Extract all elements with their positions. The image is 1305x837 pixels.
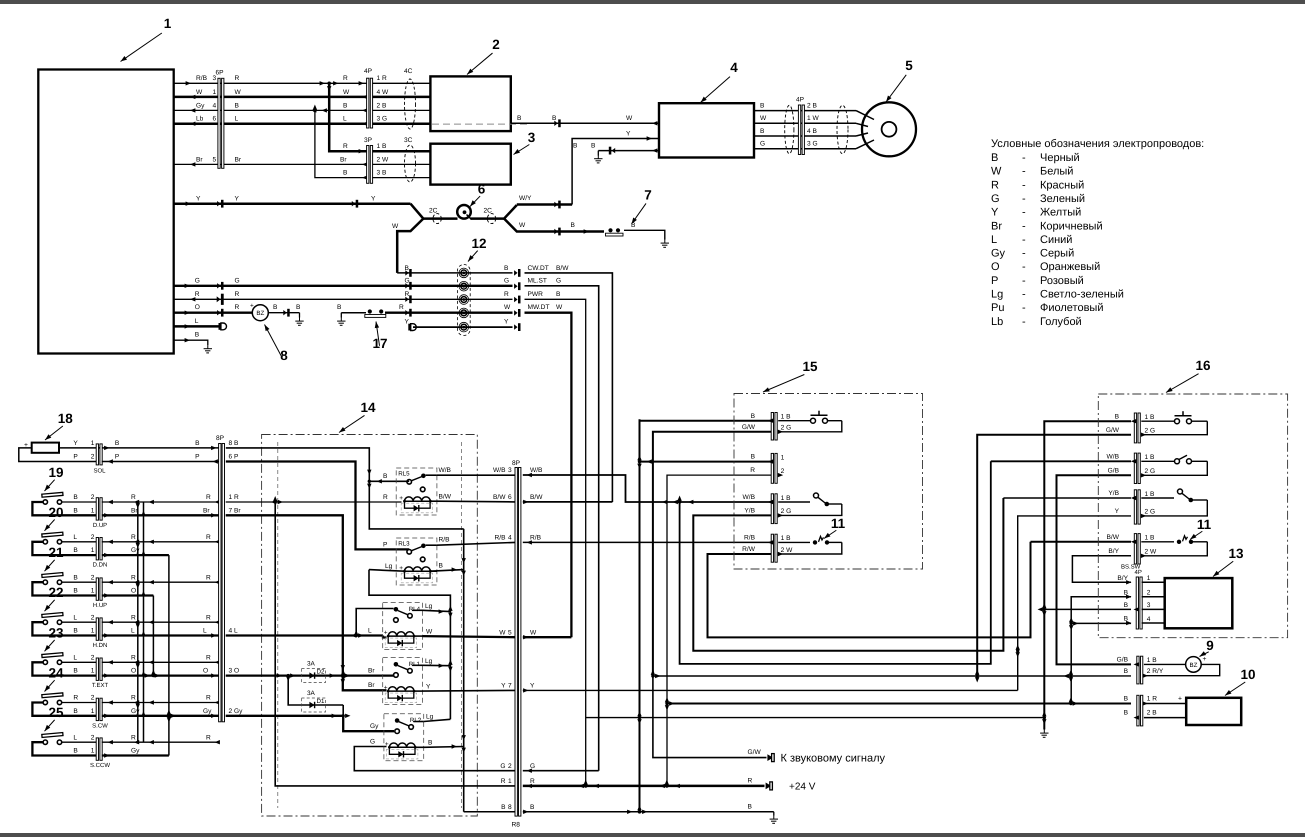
- svg-text:B: B: [195, 440, 200, 447]
- svg-text:RL5: RL5: [398, 471, 410, 478]
- wire G central corner: [523, 770, 599, 772]
- svg-text:1 R: 1 R: [1147, 696, 1157, 703]
- wire Y to component 4: [572, 130, 659, 204]
- svg-text:G: G: [991, 193, 1000, 205]
- wire R/B output of RL3: [437, 537, 515, 546]
- svg-text:D.UP: D.UP: [93, 522, 107, 529]
- svg-text:B: B: [504, 265, 509, 272]
- svg-text:Голубой: Голубой: [1040, 316, 1082, 328]
- svg-text:1: 1: [508, 778, 512, 785]
- svg-text:RL3: RL3: [398, 541, 410, 548]
- svg-text:6 P: 6 P: [229, 454, 239, 461]
- wire B output of RL2: [424, 739, 464, 747]
- wire Gy row to relay RL2: [226, 714, 394, 732]
- svg-text:3C: 3C: [404, 137, 413, 144]
- svg-text:6P: 6P: [216, 70, 225, 77]
- connector 8P left: [216, 435, 243, 722]
- svg-text:S.CCW: S.CCW: [90, 762, 110, 769]
- label 5: [884, 58, 913, 103]
- component 10 box: [1186, 698, 1241, 725]
- svg-text:Y: Y: [73, 440, 78, 447]
- svg-text:R: R: [195, 291, 200, 298]
- svg-text:2: 2: [91, 614, 95, 621]
- svg-text:5: 5: [508, 629, 512, 636]
- connector SOL: [94, 444, 219, 474]
- connector component 10: [1124, 695, 1158, 726]
- wire Lg input of RL3: [369, 563, 405, 571]
- svg-text:B: B: [1115, 413, 1120, 420]
- wire O row to buzzer 8: [174, 304, 253, 316]
- svg-text:BZ: BZ: [256, 310, 264, 317]
- solenoid 18: [19, 442, 219, 462]
- diode D2: [302, 661, 326, 683]
- svg-text:MW.DT: MW.DT: [528, 304, 550, 311]
- svg-text:B: B: [748, 803, 753, 810]
- svg-text:G: G: [556, 278, 561, 285]
- svg-text:Y: Y: [530, 683, 535, 690]
- wire Y/B row into box 16: [1003, 497, 1131, 499]
- svg-text:11: 11: [1197, 517, 1212, 532]
- svg-text:Y/B: Y/B: [744, 508, 755, 515]
- wire buzzer 8 to ground: [268, 304, 303, 325]
- svg-text:R: R: [383, 494, 388, 501]
- wire B/W output of RL5: [437, 494, 515, 502]
- wire B PWR from connector 12: [525, 291, 586, 786]
- wire buzzer 9 loop: [1071, 664, 1220, 676]
- svg-text:ML.ST: ML.ST: [528, 278, 547, 285]
- buzzer 9: [1186, 656, 1207, 672]
- wire R/B row to 4P pin1: [174, 75, 367, 91]
- svg-text:Gy: Gy: [196, 102, 205, 109]
- svg-text:G/W: G/W: [748, 749, 762, 756]
- svg-text:R: R: [504, 291, 509, 298]
- svg-text:2 W: 2 W: [377, 156, 389, 163]
- connector in box 16 rows Y/B/Y: [1108, 490, 1155, 524]
- rotary connector 6: [457, 205, 471, 220]
- wire Gy/B row to 4P pin2: [174, 102, 368, 112]
- svg-text:B/W: B/W: [530, 494, 543, 501]
- svg-text:CW.DT: CW.DT: [528, 265, 549, 272]
- svg-text:R: R: [131, 614, 136, 621]
- svg-text:Желтый: Желтый: [1040, 207, 1081, 219]
- svg-text:PWR: PWR: [528, 291, 544, 298]
- svg-text:T.EXT: T.EXT: [92, 682, 109, 689]
- svg-text:R: R: [501, 778, 506, 785]
- connector 12 circles: [457, 265, 470, 336]
- label 13: [1212, 546, 1244, 578]
- svg-text:D1: D1: [317, 698, 325, 705]
- svg-text:22: 22: [48, 585, 63, 600]
- label 1: [119, 16, 172, 63]
- svg-text:H.DN: H.DN: [93, 642, 108, 649]
- switch in box 16 at 421: [1141, 411, 1207, 435]
- grommet 4C: [404, 68, 416, 129]
- svg-text:1 B: 1 B: [781, 414, 791, 421]
- svg-text:К звуковому сигналу: К звуковому сигналу: [781, 752, 886, 764]
- svg-text:B: B: [1124, 589, 1129, 596]
- wire O switch 23 row2: [102, 668, 219, 678]
- svg-text:4 B: 4 B: [807, 128, 817, 135]
- svg-text:Pu: Pu: [991, 302, 1004, 314]
- svg-text:R/W: R/W: [742, 546, 756, 553]
- svg-text:O: O: [131, 668, 136, 675]
- svg-text:Y: Y: [426, 683, 431, 690]
- svg-text:O: O: [203, 668, 208, 675]
- svg-text:B/Y: B/Y: [1108, 548, 1119, 555]
- svg-text:3 O: 3 O: [229, 668, 240, 675]
- wires component 4 to motor 5: [754, 103, 874, 149]
- svg-text:B: B: [337, 304, 342, 311]
- page bottom border: [0, 833, 1305, 837]
- svg-text:B: B: [273, 304, 278, 311]
- svg-text:W: W: [504, 304, 511, 311]
- svg-text:Br: Br: [368, 682, 375, 689]
- svg-text:-: -: [1022, 166, 1026, 178]
- wire O row with diode D2 to relay RL1: [226, 668, 394, 682]
- svg-text:4P: 4P: [1135, 569, 1142, 576]
- svg-text:G: G: [760, 141, 765, 148]
- relay box 14 inner dashed right: [460, 442, 462, 808]
- svg-text:1 B: 1 B: [1147, 657, 1157, 664]
- svg-text:Белый: Белый: [1040, 166, 1073, 178]
- svg-text:Y: Y: [405, 319, 410, 326]
- svg-text:B: B: [439, 563, 444, 570]
- wire G/W vertical to box 16: [977, 435, 1131, 676]
- svg-text:B: B: [383, 473, 388, 480]
- svg-text:Y: Y: [501, 683, 506, 690]
- svg-text:W: W: [556, 304, 563, 311]
- wires 3P connector to component 3: [372, 151, 430, 177]
- svg-text:1: 1: [91, 547, 95, 554]
- svg-text:R: R: [750, 467, 755, 474]
- wire switch 17 to connector 12 row W: [385, 304, 513, 316]
- wire R central to +24V: [523, 777, 765, 788]
- svg-text:1 B: 1 B: [1145, 535, 1155, 542]
- svg-text:B: B: [195, 332, 200, 339]
- relay RL2: [384, 714, 424, 761]
- svg-text:4P: 4P: [364, 68, 373, 75]
- wire R switch 23 row1: [102, 654, 220, 664]
- wire Br to relay RL1 coil: [226, 515, 387, 690]
- svg-text:2 G: 2 G: [781, 425, 792, 432]
- wire W up into bundle: [392, 219, 423, 273]
- wire Y row of connector 12: [405, 319, 513, 331]
- svg-text:W: W: [343, 89, 350, 96]
- dashed wire through component 2: [432, 123, 530, 125]
- wire W row to 4P pin4: [174, 89, 368, 99]
- svg-text:2 G: 2 G: [1145, 468, 1156, 475]
- wire B row3 box16: [1044, 608, 1131, 610]
- wire Lg bus: [369, 570, 453, 720]
- svg-text:B: B: [751, 454, 756, 461]
- svg-text:3A: 3A: [307, 690, 316, 697]
- svg-text:2: 2: [91, 453, 95, 460]
- svg-text:3 B: 3 B: [377, 170, 387, 177]
- svg-text:W/B: W/B: [439, 467, 452, 474]
- svg-text:-: -: [1022, 234, 1026, 246]
- wire Y vertical to box 16: [1016, 516, 1132, 691]
- svg-text:L: L: [73, 534, 77, 541]
- svg-text:Br: Br: [368, 668, 375, 675]
- svg-text:B: B: [530, 804, 535, 811]
- svg-text:R: R: [399, 304, 404, 311]
- connector 3P: [364, 137, 389, 184]
- svg-text:Оранжевый: Оранжевый: [1040, 261, 1100, 273]
- wire O switch 21 row2: [102, 588, 154, 596]
- svg-text:L: L: [235, 116, 239, 123]
- svg-text:5: 5: [213, 156, 217, 163]
- svg-text:3: 3: [508, 467, 512, 474]
- svg-text:2: 2: [492, 37, 500, 52]
- svg-text:R/B: R/B: [495, 535, 507, 542]
- svg-text:R: R: [991, 179, 999, 191]
- svg-text:R8: R8: [512, 822, 521, 829]
- svg-text:G: G: [500, 763, 505, 770]
- svg-text:2: 2: [91, 654, 95, 661]
- legend wire colour codes: [991, 138, 1204, 328]
- connector 4P: [364, 68, 389, 128]
- wire Lg output of RL1: [423, 658, 451, 666]
- svg-text:16: 16: [1195, 358, 1211, 373]
- svg-text:Светло-зеленый: Светло-зеленый: [1040, 289, 1124, 301]
- svg-text:Y: Y: [371, 196, 376, 203]
- svg-text:W: W: [530, 629, 537, 636]
- terminal +24V: [766, 782, 816, 793]
- wire R/B central to box 15: [523, 541, 771, 543]
- svg-text:Y/B: Y/B: [1108, 490, 1119, 497]
- relay RL4: [383, 603, 423, 650]
- svg-text:-: -: [1022, 207, 1026, 219]
- svg-text:G: G: [530, 763, 535, 770]
- switch 22 H.DN: [32, 613, 96, 636]
- svg-text:W: W: [760, 115, 767, 122]
- svg-text:2: 2: [91, 734, 95, 741]
- wire R switch 19 row1: [102, 494, 220, 504]
- wire B row2 box15: [640, 461, 772, 463]
- label 3: [512, 130, 535, 156]
- svg-text:G: G: [195, 277, 200, 284]
- svg-text:W: W: [626, 115, 633, 122]
- svg-text:R: R: [73, 695, 78, 702]
- connector 4P motor: [796, 97, 805, 155]
- svg-text:-: -: [1022, 275, 1026, 287]
- label 18: [44, 411, 74, 442]
- svg-text:R: R: [343, 143, 348, 150]
- svg-text:-: -: [1022, 193, 1026, 205]
- wire G ML.ST from connector 12: [525, 278, 599, 771]
- svg-text:L: L: [195, 318, 199, 325]
- wire Gy switch 25 row2: [102, 748, 169, 756]
- svg-text:W: W: [991, 166, 1002, 178]
- svg-text:+: +: [399, 495, 403, 502]
- wire B/W row into box 16: [1031, 541, 1132, 543]
- label 9: [1198, 638, 1213, 658]
- svg-text:7: 7: [508, 683, 512, 690]
- svg-text:W: W: [499, 629, 506, 636]
- label 4: [699, 60, 738, 104]
- grommet left of motor connector: [785, 105, 794, 153]
- svg-text:23: 23: [48, 625, 64, 640]
- wire W/Y to corner: [517, 195, 572, 209]
- wire power row to component 10: [667, 697, 1131, 706]
- svg-text:8: 8: [508, 804, 512, 811]
- label 11 box16: [1189, 517, 1212, 541]
- svg-text:18: 18: [58, 411, 74, 426]
- wire Gy switch 20 row2: [102, 547, 169, 555]
- svg-text:Br: Br: [196, 156, 203, 163]
- wire L row to relay RL4: [226, 609, 394, 638]
- svg-text:8P: 8P: [216, 435, 225, 442]
- svg-text:W: W: [196, 89, 203, 96]
- svg-text:13: 13: [1228, 546, 1244, 561]
- svg-text:G/B: G/B: [1108, 467, 1120, 474]
- switch 25 S.CCW: [32, 733, 96, 756]
- svg-text:Br: Br: [991, 220, 1002, 232]
- connector in box 15 rows R/B/R/W: [742, 534, 793, 562]
- svg-text:R: R: [343, 75, 348, 82]
- svg-text:R: R: [530, 778, 535, 785]
- svg-text:W/B: W/B: [1107, 453, 1120, 460]
- wire R switch 21 row1: [102, 574, 220, 584]
- svg-text:G: G: [504, 278, 509, 285]
- svg-text:W/Y: W/Y: [519, 195, 532, 202]
- label 6: [468, 182, 485, 208]
- svg-text:D2: D2: [317, 669, 325, 676]
- svg-text:Br: Br: [235, 156, 242, 163]
- svg-text:Gy: Gy: [991, 248, 1006, 260]
- Gy bus vertical: [166, 555, 177, 755]
- svg-text:R: R: [235, 291, 240, 298]
- wire branch B down to 3P pin3: [315, 110, 368, 179]
- svg-text:B: B: [235, 102, 240, 109]
- svg-text:G/B: G/B: [1117, 657, 1129, 664]
- wire B/W central corner: [523, 501, 613, 503]
- svg-text:2C: 2C: [429, 208, 438, 215]
- svg-text:Gy: Gy: [131, 547, 140, 554]
- svg-text:B: B: [73, 574, 78, 581]
- wire B from component 2 to component 4: [511, 115, 659, 127]
- motor 5: [862, 102, 916, 156]
- svg-text:15: 15: [802, 359, 818, 374]
- wire B row 717 to ground vertical: [586, 717, 1045, 719]
- svg-text:B/W: B/W: [1107, 534, 1120, 541]
- switch 24 S.CW: [32, 693, 96, 716]
- svg-text:S.CW: S.CW: [92, 722, 108, 729]
- wire R row component 1 to connector 12: [174, 291, 513, 305]
- svg-text:5: 5: [905, 58, 913, 73]
- component 4 box: [659, 103, 754, 157]
- svg-text:7 Br: 7 Br: [229, 507, 242, 514]
- svg-text:7: 7: [644, 188, 652, 203]
- connector in box 16 rows B/W/B/Y: [1107, 534, 1157, 564]
- svg-text:2 B: 2 B: [1147, 710, 1157, 717]
- component 1 control unit box: [38, 70, 173, 354]
- svg-text:R: R: [206, 734, 211, 741]
- svg-text:R: R: [405, 291, 410, 298]
- svg-text:W: W: [426, 629, 433, 636]
- relay RL5: [396, 468, 437, 515]
- switch in box 16 at 461: [1141, 455, 1207, 475]
- svg-text:R: R: [235, 304, 240, 311]
- wire B bus vertical: [452, 529, 466, 812]
- svg-text:10: 10: [1240, 667, 1255, 682]
- connector 6P: [216, 70, 225, 169]
- svg-text:L: L: [73, 734, 77, 741]
- wire branch R down to 3P pin1: [329, 83, 367, 153]
- wire W/B row into box 16: [991, 460, 1131, 462]
- wire B/Y net vertical: [1069, 597, 1131, 704]
- svg-text:3 G: 3 G: [807, 141, 818, 148]
- label 20: [43, 505, 64, 532]
- svg-text:2: 2: [91, 574, 95, 581]
- wire B output of RL3: [430, 563, 463, 572]
- grommet 2C right: [484, 208, 496, 224]
- svg-text:4: 4: [1147, 616, 1151, 623]
- svg-text:4 W: 4 W: [377, 89, 389, 96]
- svg-text:Lg: Lg: [991, 289, 1003, 301]
- svg-text:Фиолетовый: Фиолетовый: [1040, 302, 1103, 314]
- svg-text:3A: 3A: [307, 661, 316, 668]
- equipment box 16 border: [1098, 394, 1287, 638]
- svg-text:B: B: [517, 115, 522, 122]
- svg-text:W: W: [519, 222, 526, 229]
- connector H.DN: [93, 618, 113, 649]
- wire R switch 22 row1: [102, 614, 220, 624]
- svg-text:1 B: 1 B: [1145, 491, 1155, 498]
- connector D.UP: [93, 498, 113, 529]
- label 10: [1224, 667, 1256, 697]
- svg-text:L: L: [368, 627, 372, 634]
- connector in box 15 rows B/R: [750, 453, 784, 483]
- svg-text:6: 6: [478, 182, 486, 197]
- wire R switch 24 row1: [102, 695, 220, 705]
- switch in box 16 at 498: [1141, 489, 1207, 516]
- svg-text:Y: Y: [235, 196, 240, 203]
- svg-text:Красный: Красный: [1040, 179, 1084, 191]
- connector in box 15 rows W/B/Y/B: [743, 494, 792, 524]
- svg-text:4: 4: [213, 102, 217, 109]
- svg-text:+24 V: +24 V: [789, 782, 816, 793]
- svg-text:Зеленый: Зеленый: [1040, 193, 1085, 205]
- svg-text:L: L: [203, 628, 207, 635]
- switch 19 D.UP: [32, 492, 96, 515]
- svg-text:G: G: [370, 738, 375, 745]
- svg-text:-: -: [1022, 261, 1026, 273]
- svg-text:G/W: G/W: [742, 424, 756, 431]
- svg-text:Коричневый: Коричневый: [1040, 220, 1103, 232]
- svg-text:R: R: [235, 75, 240, 82]
- svg-text:1 B: 1 B: [377, 143, 387, 150]
- wire switch 7 to ground: [624, 230, 669, 247]
- svg-text:R: R: [131, 494, 136, 501]
- svg-text:2 R/Y: 2 R/Y: [1147, 668, 1164, 675]
- wire Br row to 3P pin2: [174, 156, 368, 166]
- svg-text:B: B: [343, 170, 348, 177]
- svg-text:W/B: W/B: [493, 467, 506, 474]
- svg-text:D.DN: D.DN: [93, 562, 108, 569]
- switch in box 15 at 542: [778, 536, 842, 554]
- svg-text:B: B: [296, 304, 301, 311]
- page top border: [0, 0, 1305, 4]
- label 23: [43, 625, 64, 652]
- wire Br switch 19 row2: [102, 507, 219, 517]
- svg-text:1: 1: [91, 440, 95, 447]
- svg-text:-: -: [1022, 152, 1026, 164]
- wire R row to relay RL5 coil: [226, 494, 402, 504]
- O bus vertical: [145, 596, 160, 678]
- wire B vertical box 16 to ground: [1038, 421, 1132, 737]
- svg-text:L: L: [343, 116, 347, 123]
